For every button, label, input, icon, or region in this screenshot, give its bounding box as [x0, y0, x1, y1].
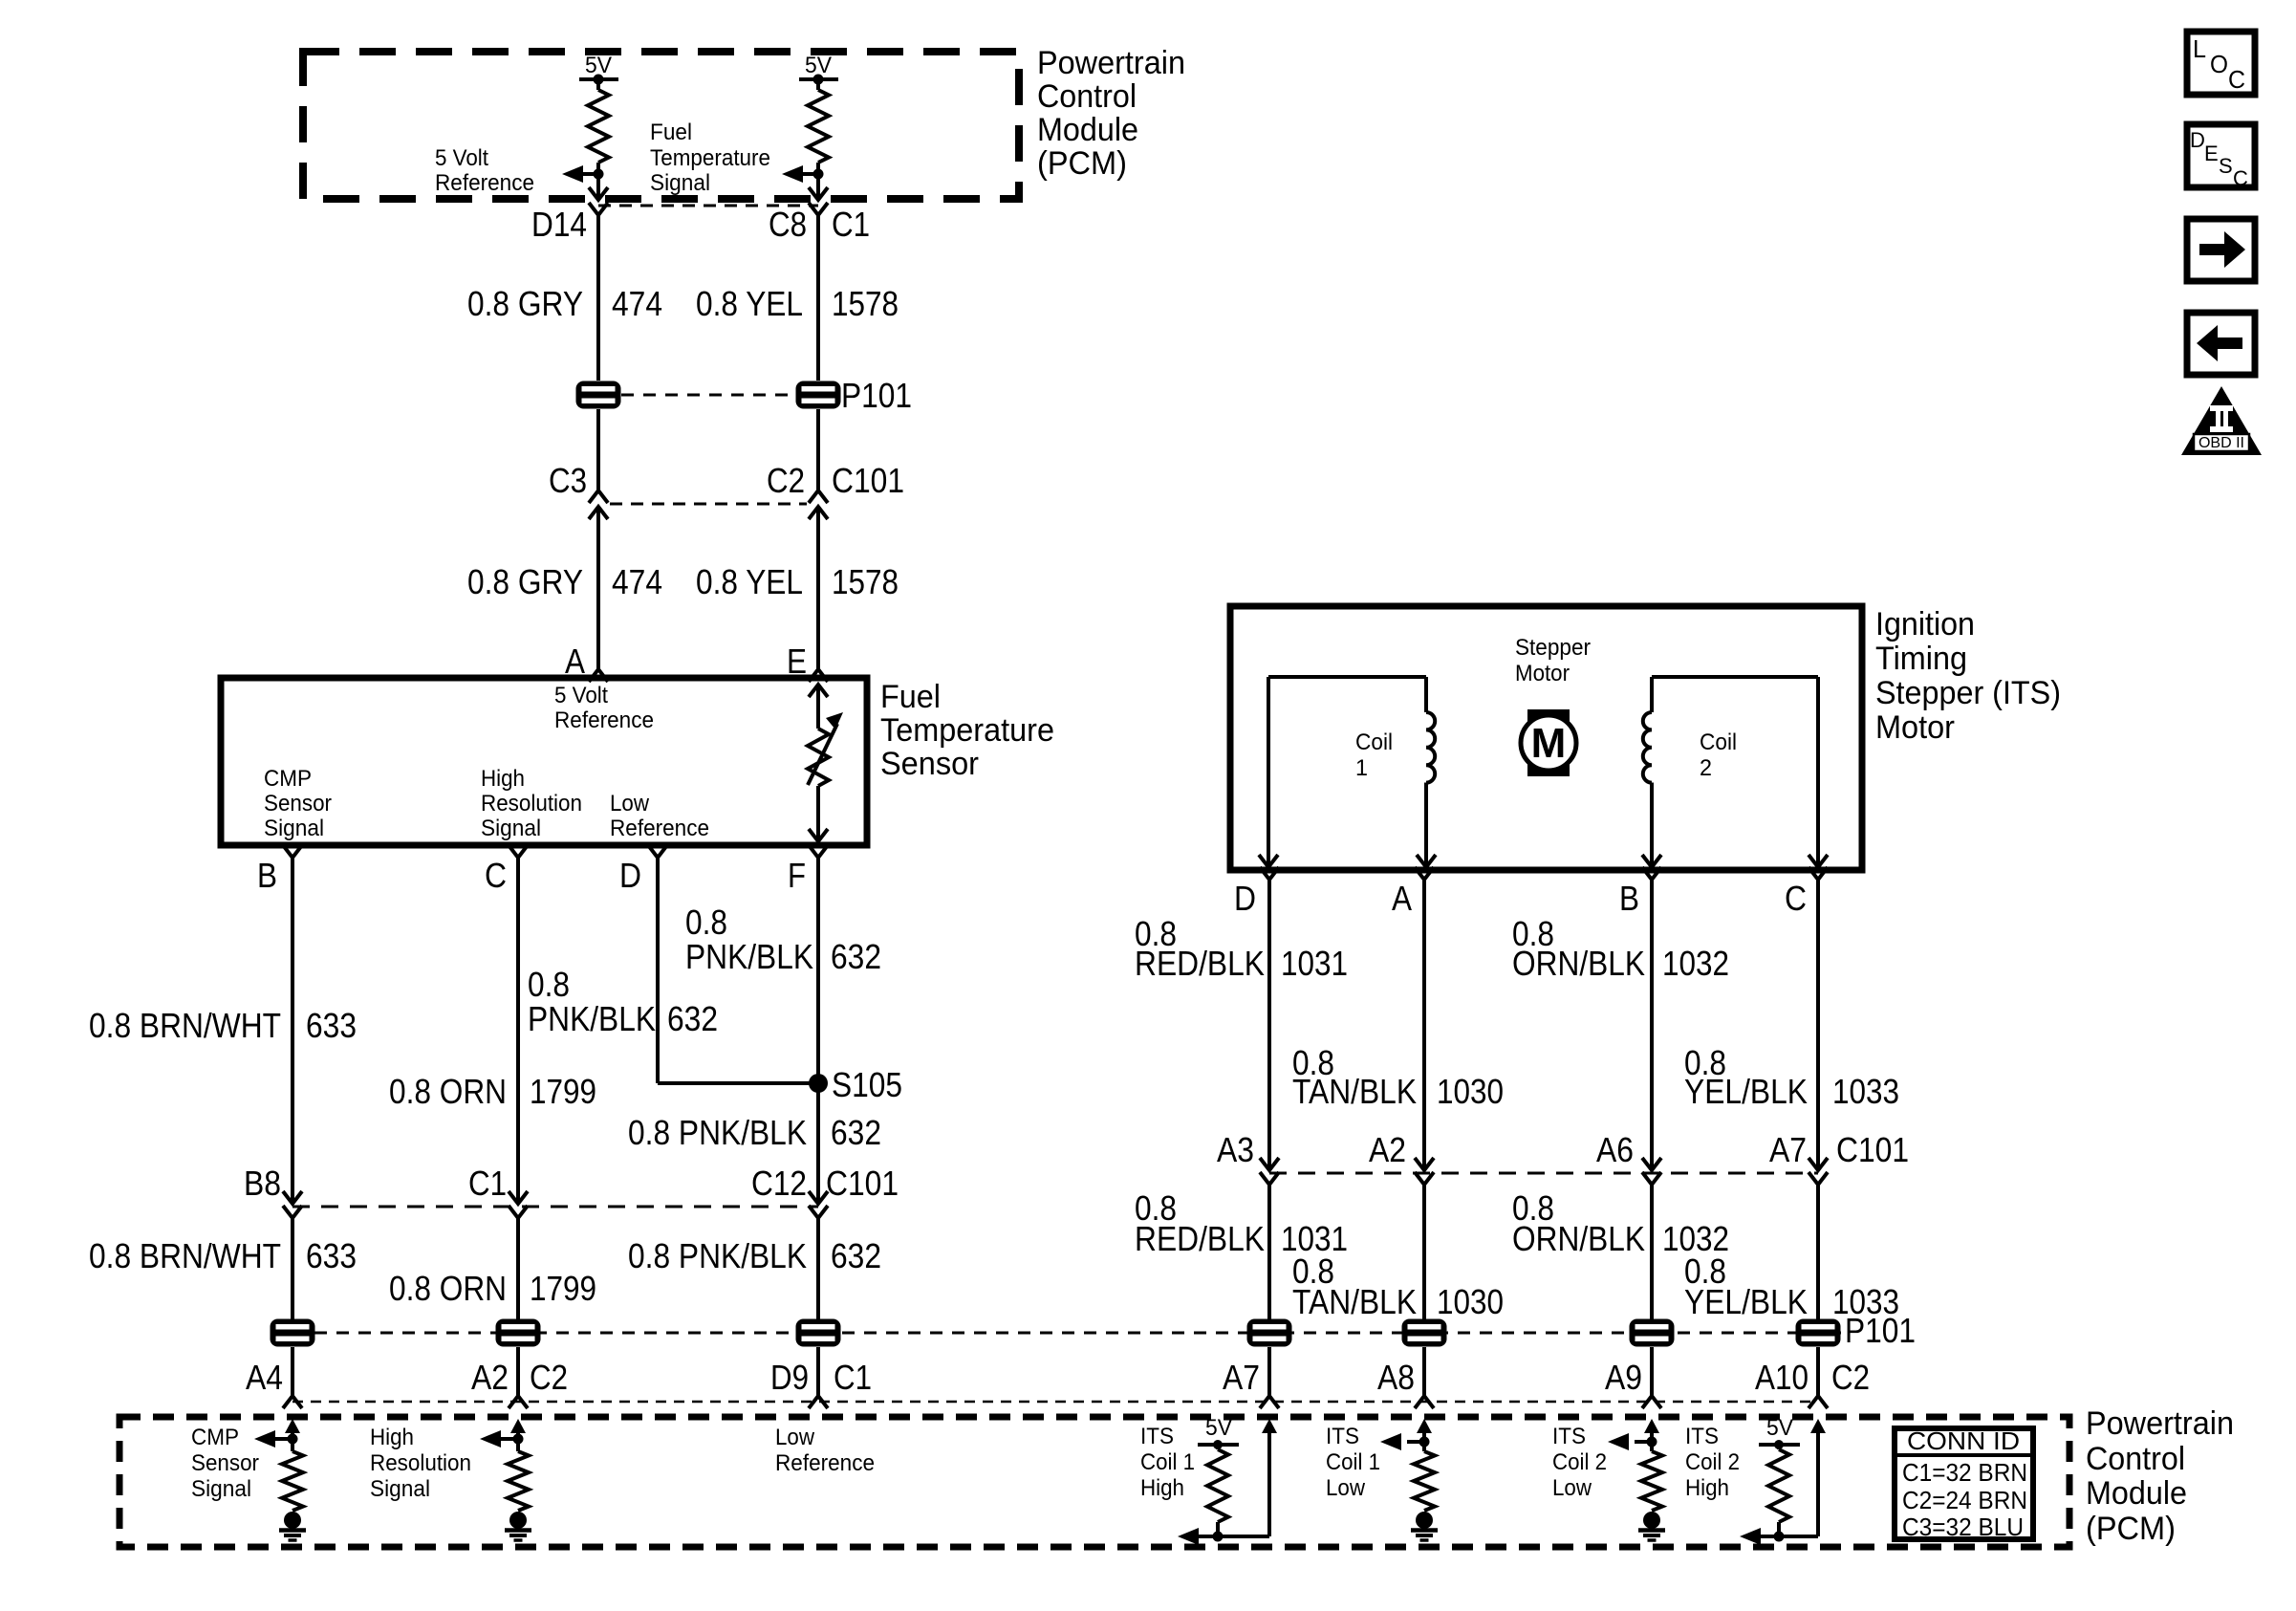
- pin D14 terminal fork: [589, 203, 608, 215]
- svg-text:D14: D14: [531, 205, 587, 244]
- wire YEL segment 2: [816, 409, 820, 490]
- connector C101 crossing PNK/BLK wire: [809, 1191, 828, 1218]
- connector C101 dashed boundary right: [1269, 1172, 1818, 1175]
- svg-text:F: F: [788, 856, 806, 895]
- arrow into PCM High Resolution wire: [510, 1419, 526, 1433]
- label CMP Sensor Signal in sensor: [264, 766, 332, 841]
- wire RED/BLK segment 2: [1267, 1185, 1271, 1319]
- wire BRN/WHT segment 1: [291, 858, 294, 1202]
- svg-text:OBD II: OBD II: [2199, 435, 2244, 451]
- dashed link P101: [621, 394, 795, 397]
- wire ITS coil 1 low inside PCM: [1422, 1432, 1426, 1451]
- 5V supply ITS coil 1 high: [1198, 1415, 1239, 1449]
- label CMP Sensor Signal: [191, 1425, 259, 1502]
- svg-text:C101: C101: [826, 1164, 899, 1203]
- label High Resolution Signal: [370, 1425, 471, 1502]
- svg-text:S105: S105: [832, 1065, 902, 1104]
- label Powertrain Control Module (PCM) top: [1037, 45, 1185, 182]
- svg-text:High: High: [1140, 1475, 1184, 1501]
- svg-text:TAN/BLK: TAN/BLK: [1292, 1072, 1417, 1111]
- wire to Fuel Temperature Signal arrow: [801, 172, 818, 176]
- svg-text:P101: P101: [841, 376, 912, 415]
- svg-text:Motor: Motor: [1875, 709, 1955, 746]
- svg-text:Coil 2: Coil 2: [1685, 1449, 1740, 1475]
- label Powertrain Control Module (PCM) bottom: [2086, 1405, 2234, 1547]
- svg-text:Coil: Coil: [1700, 729, 1737, 755]
- resistor ITS coil 1 high: [1207, 1445, 1228, 1536]
- resistor in PCM (5 volt reference pull-up): [596, 79, 600, 90]
- ground CMP: [284, 1512, 301, 1529]
- node junction ITS coil 1 high: [1213, 1532, 1224, 1542]
- svg-text:Fuel: Fuel: [650, 120, 692, 145]
- svg-text:1578: 1578: [832, 284, 899, 323]
- wire to CMP arrow: [275, 1437, 292, 1441]
- label 0.8 YEL/BLK 1033 lower: [1684, 1252, 1899, 1321]
- ground High Resolution: [509, 1512, 527, 1529]
- connector C101 crossing ORN wire: [509, 1191, 528, 1218]
- svg-text:5 Volt: 5 Volt: [435, 145, 488, 171]
- pin D terminal fork below sensor: [648, 845, 667, 858]
- svg-text:C: C: [2233, 166, 2248, 190]
- label 0.8 BRN/WHT 633 upper: [89, 1006, 357, 1045]
- svg-text:632: 632: [831, 937, 881, 976]
- svg-text:C101: C101: [832, 461, 904, 500]
- svg-text:Ignition: Ignition: [1875, 606, 1975, 642]
- 5V supply node 2: [799, 53, 838, 85]
- svg-text:1030: 1030: [1437, 1072, 1504, 1111]
- wire to High Resolution arrow: [501, 1437, 518, 1441]
- label 0.8 BRN/WHT 633 lower: [89, 1236, 357, 1275]
- svg-text:633: 633: [306, 1236, 357, 1275]
- resistor ITS coil 2 high: [1768, 1445, 1789, 1536]
- icon LOC box: [2187, 32, 2255, 95]
- wire GRY segment 3: [596, 507, 600, 669]
- svg-text:TAN/BLK: TAN/BLK: [1292, 1282, 1417, 1321]
- svg-text:C1: C1: [832, 205, 870, 244]
- splice pass-through P101 on PNK/BLK wire: [796, 1319, 841, 1347]
- svg-text:Low: Low: [610, 791, 650, 816]
- label 0.8 PNK/BLK 632 on F wire: [685, 903, 881, 976]
- resistor in PCM (fuel temp signal pull-up): [816, 79, 820, 90]
- label Ignition Timing Stepper (ITS) Motor: [1875, 606, 2061, 746]
- wire CMP inside PCM: [291, 1432, 294, 1451]
- terminal fork YEL/BLK at PCM: [1809, 1396, 1828, 1408]
- svg-text:High: High: [1685, 1475, 1729, 1501]
- svg-text:A: A: [1392, 879, 1412, 918]
- svg-text:Reference: Reference: [435, 170, 534, 196]
- label 0.8 PNK/BLK 632 lower: [628, 1236, 881, 1275]
- svg-text:632: 632: [831, 1236, 881, 1275]
- wire RED/BLK segment 3: [1267, 1347, 1271, 1396]
- label 0.8 ORN/BLK 1032 lower: [1512, 1188, 1729, 1258]
- svg-text:0.8: 0.8: [528, 965, 570, 1004]
- svg-text:ITS: ITS: [1326, 1424, 1359, 1449]
- svg-text:C2=24 BRN: C2=24 BRN: [1902, 1486, 2027, 1514]
- label Coil 2: [1700, 729, 1737, 781]
- wire PNK/BLK segment 3: [816, 1347, 820, 1396]
- svg-text:C12: C12: [751, 1164, 807, 1203]
- svg-text:Powertrain: Powertrain: [2086, 1405, 2234, 1442]
- svg-text:B: B: [1619, 879, 1639, 918]
- terminal fork PNK/BLK at PCM: [809, 1396, 828, 1408]
- svg-text:632: 632: [831, 1113, 881, 1152]
- svg-text:0.8 BRN/WHT: 0.8 BRN/WHT: [89, 1006, 281, 1045]
- svg-text:Signal: Signal: [264, 816, 324, 841]
- svg-text:633: 633: [306, 1006, 357, 1045]
- label ITS Coil 2 Low: [1552, 1424, 1607, 1501]
- connector C101 crossing GRY wire: [589, 490, 608, 519]
- label 0.8 RED/BLK 1031 lower: [1135, 1188, 1348, 1258]
- label Stepper Motor: [1515, 635, 1591, 686]
- label High Resolution Signal in sensor: [481, 766, 582, 841]
- svg-text:A9: A9: [1605, 1358, 1642, 1397]
- arrow into PCM ITS coil 2 low wire: [1644, 1419, 1659, 1433]
- wire RED/BLK segment 1: [1267, 880, 1271, 1170]
- arrow out of PCM wire 1: [589, 187, 608, 200]
- terminal fork RED/BLK at PCM: [1260, 1396, 1279, 1408]
- svg-text:1032: 1032: [1662, 944, 1729, 983]
- svg-text:RED/BLK: RED/BLK: [1135, 1219, 1265, 1258]
- Fuel Temperature Sensor box: [221, 678, 867, 845]
- dashed link P101 bottom row: [292, 1332, 1841, 1335]
- svg-text:Temperature: Temperature: [650, 145, 770, 171]
- svg-text:Stepper (ITS): Stepper (ITS): [1875, 675, 2061, 711]
- svg-text:S: S: [2219, 154, 2233, 178]
- wire to 5 Volt Reference arrow: [581, 172, 598, 176]
- svg-text:Low: Low: [775, 1425, 815, 1450]
- svg-text:(PCM): (PCM): [2086, 1511, 2176, 1547]
- label 5 Volt Reference: [435, 145, 534, 196]
- pin C8 terminal fork: [809, 203, 828, 215]
- svg-text:D: D: [1234, 879, 1256, 918]
- connector C101 crossing RED/BLK wire: [1260, 1158, 1279, 1185]
- CONN ID table: [1895, 1426, 2033, 1541]
- wire TAN/BLK segment 1: [1422, 880, 1426, 1170]
- svg-text:RED/BLK: RED/BLK: [1135, 944, 1265, 983]
- connector C1 C2 dashed boundary bottom: [292, 1401, 1818, 1404]
- label Coil 1: [1355, 729, 1393, 781]
- connector C101 dashed boundary left: [292, 1206, 818, 1208]
- label 0.8 ORN 1799 upper: [389, 1072, 596, 1111]
- svg-text:0.8 YEL: 0.8 YEL: [696, 562, 803, 601]
- svg-text:5V: 5V: [1205, 1415, 1232, 1441]
- icon forward arrow box: [2187, 219, 2255, 281]
- pin B terminal fork below sensor: [283, 845, 302, 858]
- svg-text:1033: 1033: [1832, 1072, 1899, 1111]
- svg-text:0.8 YEL: 0.8 YEL: [696, 284, 803, 323]
- label 0.8 ORN/BLK 1032 upper: [1512, 914, 1729, 983]
- svg-text:CMP: CMP: [191, 1425, 239, 1450]
- arrow ITS coil 1 high drive: [1178, 1528, 1199, 1545]
- wire YEL/BLK segment 1: [1816, 880, 1820, 1170]
- node junction fuel temp signal: [813, 169, 824, 180]
- splice pass-through P101 on ORN wire: [496, 1319, 541, 1347]
- svg-text:0.8 GRY: 0.8 GRY: [467, 284, 583, 323]
- svg-text:Powertrain: Powertrain: [1037, 45, 1185, 81]
- svg-text:0.8 ORN: 0.8 ORN: [389, 1269, 507, 1308]
- svg-text:1031: 1031: [1281, 944, 1348, 983]
- svg-text:A3: A3: [1217, 1130, 1254, 1169]
- svg-text:Temperature: Temperature: [880, 712, 1054, 749]
- svg-text:Sensor: Sensor: [264, 791, 332, 816]
- svg-text:Signal: Signal: [481, 816, 541, 841]
- wire ORN segment 3: [516, 1347, 520, 1396]
- arrow out of PCM wire 2: [809, 187, 828, 200]
- stepper motor M symbol: [1521, 709, 1576, 776]
- svg-text:Motor: Motor: [1515, 661, 1570, 686]
- wire PNK/BLK from pin F: [816, 858, 820, 1202]
- svg-text:1799: 1799: [530, 1269, 596, 1308]
- wire: [816, 163, 820, 198]
- connector C101 crossing TAN/BLK wire: [1415, 1158, 1434, 1185]
- label ITS Coil 1 Low: [1326, 1424, 1380, 1501]
- svg-text:C101: C101: [1836, 1130, 1909, 1169]
- connector C101 crossing ORN/BLK wire: [1642, 1158, 1661, 1185]
- wire YEL segment 3: [816, 507, 820, 669]
- wire YEL segment 1: [816, 215, 820, 381]
- svg-text:0.8 ORN: 0.8 ORN: [389, 1072, 507, 1111]
- wire BRN/WHT segment 2: [291, 1218, 294, 1319]
- node junction ITS coil 2 high: [1774, 1532, 1785, 1542]
- connector C1 dashed boundary top: [598, 205, 818, 207]
- connector C101 crossing BRN/WHT wire: [283, 1191, 302, 1218]
- svg-text:Reference: Reference: [610, 816, 709, 841]
- wire GRY segment 1: [596, 215, 600, 381]
- svg-text:Module: Module: [2086, 1475, 2187, 1512]
- svg-text:Signal: Signal: [370, 1476, 430, 1502]
- svg-text:CONN ID: CONN ID: [1907, 1426, 2020, 1455]
- arrow into PCM ITS coil 1 low wire: [1417, 1419, 1432, 1433]
- pin D terminal fork below ITS box: [1260, 867, 1279, 880]
- svg-text:A8: A8: [1377, 1358, 1415, 1397]
- wire High Resolution inside PCM: [516, 1432, 520, 1451]
- wire to ITS coil 1 low arrow: [1407, 1440, 1424, 1444]
- svg-text:C: C: [1785, 879, 1807, 918]
- svg-text:ITS: ITS: [1140, 1424, 1174, 1449]
- wire BRN/WHT segment 3: [291, 1347, 294, 1396]
- svg-text:5V: 5V: [1766, 1415, 1793, 1441]
- svg-text:B: B: [257, 856, 277, 895]
- connector C101 crossing YEL wire: [809, 490, 828, 519]
- svg-text:PNK/BLK: PNK/BLK: [685, 937, 813, 976]
- label Fuel Temperature Signal: [650, 120, 770, 196]
- wire ORN/BLK segment 2: [1650, 1185, 1654, 1319]
- terminal fork TAN/BLK at PCM: [1415, 1396, 1434, 1408]
- svg-text:E: E: [2204, 142, 2219, 165]
- svg-text:C3=32 BLU: C3=32 BLU: [1902, 1513, 2024, 1541]
- 5V supply node 1: [579, 53, 618, 85]
- wire GRY segment 2: [596, 409, 600, 490]
- label 5 Volt Reference in sensor: [554, 683, 654, 733]
- label 0.8 YEL 1578 upper: [696, 284, 899, 323]
- svg-text:Coil 1: Coil 1: [1326, 1449, 1380, 1475]
- wire YEL/BLK segment 2: [1816, 1185, 1820, 1319]
- resistor CMP input: [282, 1451, 303, 1511]
- coil 2 winding: [1642, 677, 1828, 867]
- resistor ITS coil 1 low: [1414, 1451, 1435, 1511]
- svg-text:474: 474: [612, 284, 662, 323]
- svg-text:Timing: Timing: [1875, 641, 1967, 677]
- arrow into PCM CMP wire: [285, 1419, 300, 1433]
- svg-text:0.8 GRY: 0.8 GRY: [467, 562, 583, 601]
- svg-text:C3: C3: [549, 461, 587, 500]
- node junction 5V ref: [594, 169, 604, 180]
- wire ITS coil 2 high inside PCM: [1761, 1432, 1818, 1536]
- svg-text:0.8 PNK/BLK: 0.8 PNK/BLK: [628, 1236, 807, 1275]
- node junction ITS coil 1 low: [1419, 1437, 1430, 1448]
- svg-text:474: 474: [612, 562, 662, 601]
- svg-text:C: C: [2228, 65, 2245, 94]
- svg-text:D: D: [619, 856, 641, 895]
- svg-text:ORN/BLK: ORN/BLK: [1512, 944, 1645, 983]
- Ignition Timing Stepper Motor box: [1230, 606, 1862, 870]
- splice pass-through P101 on YEL/BLK wire: [1796, 1319, 1841, 1347]
- label 0.8 GRY 474 lower: [467, 562, 662, 601]
- svg-text:C8: C8: [769, 205, 807, 244]
- svg-text:(PCM): (PCM): [1037, 145, 1127, 182]
- wire PNK/BLK segment 2: [816, 1218, 820, 1319]
- svg-text:2: 2: [1700, 755, 1712, 781]
- wire TAN/BLK segment 3: [1422, 1347, 1426, 1396]
- svg-text:Coil: Coil: [1355, 729, 1393, 755]
- svg-text:CMP: CMP: [264, 766, 312, 792]
- svg-text:B8: B8: [244, 1164, 281, 1203]
- svg-text:C: C: [485, 856, 507, 895]
- label 0.8 YEL/BLK 1033 upper: [1684, 1043, 1899, 1111]
- svg-text:Control: Control: [1037, 78, 1137, 115]
- splice pass-through P101 on TAN/BLK wire: [1402, 1319, 1447, 1347]
- svg-text:Low: Low: [1326, 1475, 1366, 1501]
- wire ORN segment 1: [516, 858, 520, 1202]
- thermistor fuel temperature sensing element: [808, 685, 843, 841]
- svg-text:O: O: [2210, 50, 2228, 78]
- wire YEL/BLK segment 3: [1816, 1347, 1820, 1396]
- wire ITS coil 2 low inside PCM: [1650, 1432, 1654, 1451]
- pin B terminal fork below ITS box: [1642, 867, 1661, 880]
- wire TAN/BLK segment 2: [1422, 1185, 1426, 1319]
- svg-text:Signal: Signal: [191, 1476, 251, 1502]
- svg-text:Control: Control: [2086, 1441, 2185, 1477]
- wire to ITS coil 2 low arrow: [1635, 1440, 1652, 1444]
- svg-text:D: D: [2190, 128, 2205, 152]
- terminal fork BRN/WHT at PCM: [283, 1396, 302, 1408]
- PCM top dashed box: [303, 52, 1019, 199]
- pin E terminal fork at sensor: [809, 669, 828, 682]
- wire ORN/BLK segment 3: [1650, 1347, 1654, 1396]
- svg-text:Module: Module: [1037, 112, 1138, 148]
- svg-text:C2: C2: [530, 1358, 568, 1397]
- svg-text:A2: A2: [1369, 1130, 1406, 1169]
- resistor High Resolution input: [508, 1451, 529, 1511]
- svg-text:C2: C2: [767, 461, 805, 500]
- coil 1 winding: [1259, 677, 1436, 867]
- svg-text:A2: A2: [471, 1358, 509, 1397]
- svg-text:YEL/BLK: YEL/BLK: [1684, 1072, 1808, 1111]
- svg-text:C2: C2: [1831, 1358, 1870, 1397]
- connector C101 dashed boundary: [610, 503, 807, 506]
- resistor ITS coil 2 low: [1641, 1451, 1662, 1511]
- icon DESC box: [2187, 124, 2255, 190]
- wire ORN/BLK segment 1: [1650, 880, 1654, 1170]
- pin A terminal fork at sensor: [589, 669, 608, 682]
- svg-text:Coil 1: Coil 1: [1140, 1449, 1195, 1475]
- svg-text:PNK/BLK: PNK/BLK: [528, 999, 656, 1038]
- svg-text:High: High: [481, 766, 525, 792]
- svg-text:C1: C1: [834, 1358, 872, 1397]
- svg-text:A7: A7: [1223, 1358, 1260, 1397]
- splice pass-through P101 on RED/BLK wire: [1247, 1319, 1292, 1347]
- svg-text:5 Volt: 5 Volt: [554, 683, 608, 708]
- svg-text:A10: A10: [1755, 1358, 1809, 1397]
- PCM bottom dashed box: [119, 1417, 2069, 1547]
- label Low Reference bottom: [775, 1425, 875, 1476]
- svg-text:1: 1: [1355, 755, 1368, 781]
- svg-text:Resolution: Resolution: [370, 1450, 471, 1476]
- label Low Reference in sensor: [610, 791, 709, 841]
- connector C101 crossing YEL/BLK wire: [1809, 1158, 1828, 1185]
- label 0.8 ORN 1799 lower: [389, 1269, 596, 1308]
- 5V supply ITS coil 2 high: [1759, 1415, 1800, 1449]
- wire ORN segment 2: [516, 1218, 520, 1319]
- arrow into PCM ITS coil 1 high wire: [1262, 1419, 1277, 1433]
- svg-text:A6: A6: [1596, 1130, 1634, 1169]
- label 0.8 GRY 474 upper: [467, 284, 662, 323]
- label 0.8 PNK/BLK 632 on D wire: [528, 965, 718, 1038]
- svg-text:Stepper: Stepper: [1515, 635, 1591, 661]
- svg-text:M: M: [1531, 720, 1567, 767]
- svg-text:High: High: [370, 1425, 414, 1450]
- svg-text:Low: Low: [1552, 1475, 1592, 1501]
- svg-text:L: L: [2193, 34, 2206, 63]
- label Fuel Temperature Sensor: [880, 679, 1054, 782]
- label 0.8 RED/BLK 1031 upper: [1135, 914, 1348, 983]
- svg-text:ORN/BLK: ORN/BLK: [1512, 1219, 1645, 1258]
- node junction ITS coil 2 low: [1647, 1437, 1657, 1448]
- svg-text:ITS: ITS: [1552, 1424, 1586, 1449]
- svg-text:C1: C1: [468, 1164, 507, 1203]
- svg-text:YEL/BLK: YEL/BLK: [1684, 1282, 1808, 1321]
- ground ITS coil 2 low: [1643, 1512, 1660, 1529]
- svg-text:Reference: Reference: [775, 1450, 875, 1476]
- splice pass-through P101 on ORN/BLK wire: [1630, 1319, 1675, 1347]
- splice pass-through P101 on BRN/WHT wire: [271, 1319, 315, 1347]
- label ITS Coil 1 High: [1140, 1424, 1195, 1501]
- splice node S105: [809, 1074, 828, 1093]
- ground ITS coil 1 low: [1416, 1512, 1433, 1529]
- label 0.8 YEL 1578 lower: [696, 562, 899, 601]
- svg-text:Coil 2: Coil 2: [1552, 1449, 1607, 1475]
- svg-text:C1=32 BRN: C1=32 BRN: [1902, 1458, 2027, 1487]
- label 0.8 TAN/BLK 1030 lower: [1292, 1252, 1504, 1321]
- svg-text:Resolution: Resolution: [481, 791, 582, 816]
- svg-text:D9: D9: [770, 1358, 809, 1397]
- svg-text:1030: 1030: [1437, 1282, 1504, 1321]
- arrow ITS coil 2 high drive: [1740, 1528, 1761, 1545]
- label 0.8 PNK/BLK 632 below S105: [628, 1113, 881, 1152]
- svg-text:Sensor: Sensor: [880, 746, 979, 782]
- svg-text:0.8: 0.8: [685, 903, 727, 942]
- svg-text:Sensor: Sensor: [191, 1450, 259, 1476]
- node junction High Resolution: [513, 1434, 524, 1445]
- svg-text:P101: P101: [1845, 1311, 1916, 1350]
- svg-text:Reference: Reference: [554, 708, 654, 733]
- pin C terminal fork below ITS box: [1809, 867, 1828, 880]
- svg-text:ITS: ITS: [1685, 1424, 1719, 1449]
- arrow into PCM ITS coil 2 high wire: [1810, 1419, 1826, 1433]
- svg-text:Signal: Signal: [650, 170, 710, 196]
- terminal fork ORN at PCM: [509, 1396, 528, 1408]
- pin F terminal fork below sensor: [809, 845, 828, 858]
